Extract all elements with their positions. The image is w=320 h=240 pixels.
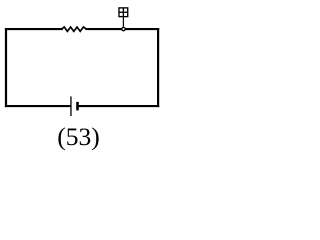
battery B1 positive plate (long): [70, 96, 72, 116]
wire resistor to terminal: [86, 28, 121, 30]
wire bottom-left segment: [6, 105, 70, 107]
wire left side: [5, 29, 7, 106]
terminal node (open circle): [122, 27, 125, 30]
wire right side: [157, 29, 159, 106]
wire stem from terminal up to plug symbol: [122, 17, 124, 27]
plug/socket symbol P1 (crossed square): [119, 8, 128, 17]
wire top-left segment: [6, 28, 62, 30]
battery B1 negative plate (short, thick): [76, 102, 79, 111]
wire bottom-right segment: [79, 105, 158, 107]
wire terminal to top-right corner: [126, 28, 158, 30]
resistor R1: [62, 27, 87, 31]
caption label (53): [0, 122, 159, 152]
